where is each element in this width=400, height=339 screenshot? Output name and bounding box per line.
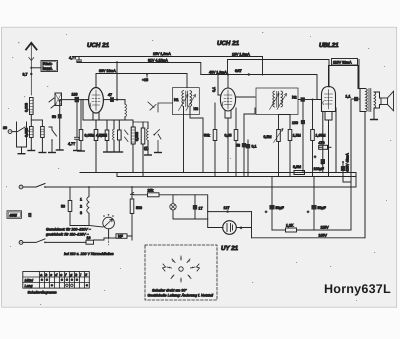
transformer T3 secondary (374, 92, 376, 108)
cathode resistor 470 (319, 112, 323, 148)
fuse box on lower mains (86, 240, 94, 244)
node dots on 40V line (248, 73, 250, 75)
svg-text:470: 470 (319, 141, 325, 145)
resistor 20k (148, 193, 160, 197)
svg-text:50: 50 (52, 115, 56, 119)
table column lines (39, 272, 84, 289)
transformer T3 core (369, 89, 371, 112)
Rueckkopplung box (41, 61, 58, 72)
IF transformer T2 shield box (256, 88, 298, 115)
svg-text:165V: 165V (319, 234, 328, 238)
osc tuning coil (tall) (132, 120, 134, 127)
svg-text:koppl.: koppl. (43, 67, 53, 71)
svg-text:+: + (307, 210, 309, 214)
IFT1 primary winding (182, 91, 184, 107)
junction to Rueckkopplung box (30, 67, 32, 69)
screen lead (335, 108, 337, 173)
ground under padder (56, 149, 63, 151)
svg-text:Gezeichnet: für 200–220V ~: Gezeichnet: für 200–220V ~ (46, 228, 91, 232)
IFT1 secondary winding (190, 91, 192, 107)
socket side zigzags (163, 264, 200, 271)
filter cap 50uF first (271, 177, 273, 206)
tube U1 anode lead to bus B3 (95, 74, 97, 88)
dashed box around rectifier socket (145, 245, 217, 300)
speaker LS (381, 98, 388, 105)
svg-text:12: 12 (28, 213, 32, 217)
svg-text:0,008: 0,008 (135, 132, 139, 141)
svg-text:bei 110 u. 220 V Kurzschließen: bei 110 u. 220 V Kurzschließen (64, 252, 114, 256)
ground under L3 (39, 152, 46, 154)
tube U2 plate lead to IFT2 (236, 96, 255, 98)
svg-text:Schalter dreht um 90°: Schalter dreht um 90° (152, 289, 187, 293)
detector line down (298, 100, 303, 121)
trimmer box (118, 120, 120, 130)
osc coupling coil (117, 100, 125, 104)
feedback coil (147, 122, 149, 129)
coupling cap 1,1 to output transformer (351, 98, 360, 100)
ground bus A (80, 172, 356, 174)
IFT1 riser to bus B3 (186, 74, 188, 88)
tube U3 internal electrodes (325, 90, 333, 110)
tube U3 UBL21 envelope (322, 87, 336, 112)
svg-text:81V 4,15mA: 81V 4,15mA (148, 59, 168, 63)
cathode resistor 0,5M under tube U1 (94, 130, 98, 141)
osc section link wire (83, 119, 133, 121)
bus 40V 1,9mA segment (201, 75, 317, 100)
tap 3,7 (30, 73, 32, 75)
table row lines (23, 277, 90, 283)
svg-text:UCH 21: UCH 21 (217, 40, 240, 47)
osc wave switch (153, 134, 155, 136)
svg-text:g: g (70, 273, 72, 277)
ground bus B (117, 173, 356, 177)
variometer chevron on antenna lead (29, 58, 34, 61)
socket diagram center (179, 267, 183, 271)
antenna coil L1 0,008 (30, 98, 34, 115)
wave-trap switch box (12, 122, 27, 147)
svg-text:500: 500 (136, 206, 142, 210)
ground under S1 (49, 152, 56, 154)
ground under osc switch (155, 152, 162, 154)
svg-text:1,5M: 1,5M (293, 134, 301, 138)
volume pot 0,5M (278, 115, 280, 130)
svg-text:Mittel: Mittel (25, 278, 34, 282)
coupling cap 0,05 (235, 108, 237, 130)
second osc coil (142, 122, 144, 128)
osc switch contacts (125, 130, 129, 142)
grid coupling cap 180 (60, 99, 88, 101)
bus B3 80V 18mA (96, 73, 187, 75)
earth terminal 30 (8, 130, 12, 134)
svg-text:6AT: 6AT (235, 69, 242, 73)
svg-text:100: 100 (292, 121, 298, 125)
IFT2 core (277, 92, 279, 108)
svg-text:58: 58 (236, 144, 240, 148)
svg-text:40V 1,9mA: 40V 1,9mA (209, 71, 227, 75)
svg-text:80V 18mA: 80V 18mA (99, 69, 116, 73)
cathode bypass 100uF (322, 147, 324, 158)
voltage selector rotary switch (103, 217, 115, 229)
IFT1 returns (183, 107, 185, 173)
cap 0,1 (246, 144, 250, 148)
svg-text:UCH 21: UCH 21 (87, 42, 110, 49)
node +18 tick (146, 74, 148, 78)
svg-text:Schalterdiagramm: Schalterdiagramm (28, 291, 57, 295)
svg-text:47: 47 (108, 93, 112, 97)
AVC line (202, 118, 204, 173)
mains terminal upper (19, 185, 23, 189)
svg-text:e: e (60, 273, 62, 277)
rectifier loop top wire (208, 211, 252, 213)
cap 1T (194, 195, 196, 205)
decoupling cap 4,7T at bus left end (77, 57, 82, 63)
resistor 1,5M (279, 115, 291, 130)
svg-text:2: 2 (80, 205, 82, 209)
ground under wave trap (18, 153, 25, 155)
tube U3 grid lead (317, 99, 322, 101)
tube U1 internal electrodes (92, 90, 100, 111)
svg-text:4,7T: 4,7T (69, 56, 77, 60)
svg-text:4,7T: 4,7T (68, 142, 76, 146)
primary return down (364, 112, 366, 238)
svg-text:N3: N3 (194, 107, 199, 111)
tube U2 top lead to 40V bus (227, 75, 229, 89)
svg-text:Lang: Lang (25, 284, 33, 288)
grid wire from detector node (305, 99, 317, 101)
IFT1 trimmer arrows (179, 95, 189, 111)
dashed link selector (108, 230, 110, 245)
bus B2 81V 4,15mA (77, 63, 201, 75)
svg-text:3,7: 3,7 (23, 73, 28, 77)
resistor 1,65M (312, 100, 314, 130)
band switch S2 upper (49, 98, 56, 108)
IFT2 trimmer arrows (270, 94, 280, 110)
plate wire with cap 47 (103, 99, 117, 101)
svg-text:50: 50 (61, 205, 65, 209)
svg-text:20k: 20k (148, 189, 154, 193)
socket pins radial (167, 256, 195, 282)
tube U1 heater pins (93, 112, 99, 129)
band switch S1 (49, 127, 57, 153)
antenna symbol (30, 44, 32, 95)
svg-text:50k: 50k (204, 134, 210, 138)
svg-text:Horny637L: Horny637L (324, 282, 391, 296)
svg-text:50μF: 50μF (318, 206, 327, 210)
heater line to lamp (132, 194, 176, 196)
band switch contacts near IFT1 (148, 102, 173, 112)
svg-text:(1): (1) (144, 147, 148, 151)
mains terminal lower (19, 241, 23, 245)
svg-text:10V 1,9mA: 10V 1,9mA (153, 52, 171, 56)
tube U3 pins down (325, 112, 332, 177)
scan speckles (18, 42, 19, 43)
svg-text:gestrichelt: für 110–125V ~: gestrichelt: für 110–125V ~ (46, 232, 89, 236)
svg-text:UBL21: UBL21 (319, 42, 339, 49)
switch table frame (23, 272, 90, 289)
output transformer T3 primary (366, 89, 368, 112)
svg-text:0,05: 0,05 (225, 134, 232, 138)
grid resistor 6,8M on ground bus (294, 171, 305, 175)
padder 4,7T (osc) (106, 120, 108, 130)
heater line continues to rectifier loop (176, 195, 208, 212)
bus B1 10V 1,9mA (77, 57, 263, 76)
padder cap 50 (59, 101, 61, 114)
smoothing resistor 1,2K on 115V line (272, 229, 286, 231)
node dot, riser to bus B2 (116, 99, 118, 101)
svg-text:115V: 115V (321, 226, 330, 230)
svg-text:h: h (75, 273, 77, 277)
IF transformer T1 shield box (173, 88, 200, 115)
svg-text:+: + (265, 210, 267, 214)
tube U2 internal electrodes (224, 90, 232, 109)
tube U2 grid return 50k (214, 103, 216, 130)
ground under trimmer (111, 151, 123, 153)
svg-text:10V 1,9mA: 10V 1,9mA (232, 53, 250, 57)
ground under 0,05M (78, 150, 85, 152)
svg-text:c: c (50, 273, 52, 277)
ground under 4,7T (74, 150, 81, 152)
link to antenna coil (27, 130, 30, 132)
B+ riser 435V 48mA (343, 99, 351, 182)
svg-text:4,7T: 4,7T (96, 134, 104, 138)
svg-text:3: 3 (80, 211, 82, 215)
IFT2 primary winding (273, 91, 275, 107)
tube U1 grid lead (88, 99, 89, 101)
svg-text:k: k (85, 273, 87, 277)
tube U2 heater pins (225, 111, 231, 173)
grid cap 4,7T (75, 100, 80, 151)
svg-text:Gestrichelte Leitung: Änderung: Gestrichelte Leitung: Änderung f. Netzte… (148, 294, 214, 298)
screen feed wire with rotated 0,1 label (218, 75, 221, 96)
svg-text:UY 21: UY 21 (221, 245, 239, 252)
coil L2 (30, 127, 34, 138)
mains switch upper (23, 177, 356, 188)
filter cap 50uF second (313, 177, 315, 206)
speaker ground (373, 108, 375, 120)
svg-text:40W: 40W (10, 213, 18, 217)
grid resistor 0,05M (80, 100, 82, 130)
svg-text:+: + (240, 226, 242, 230)
svg-text:6,8M: 6,8M (293, 165, 301, 169)
svg-text:+: + (321, 162, 323, 166)
Mittel row dots (41, 278, 44, 281)
output stage box 110V 32mA (329, 60, 359, 89)
svg-text:NF: NF (118, 235, 124, 239)
mains switch lower (23, 239, 86, 243)
tube U1 UCH21 envelope (89, 88, 104, 114)
svg-text:+: + (314, 155, 316, 159)
node A (59, 100, 61, 102)
IFT1 core (186, 91, 188, 107)
frame aerial symbol (55, 93, 62, 106)
svg-text:50μF: 50μF (276, 206, 285, 210)
ground under osc padder (104, 151, 111, 153)
svg-text:N2: N2 (292, 96, 297, 100)
ground under L2 (28, 150, 35, 152)
wire antenna lead lower (30, 115, 32, 127)
svg-text:19: 19 (87, 236, 91, 240)
heater chain primary coil (88, 187, 90, 197)
output transformer feed (329, 66, 366, 89)
svg-text:0,05M: 0,05M (85, 134, 95, 138)
svg-text:Rück-: Rück- (43, 62, 53, 66)
165V line (252, 237, 365, 239)
tube U3 top lead (328, 66, 330, 87)
svg-text:0,5M: 0,5M (264, 135, 272, 139)
coil L3 (41, 120, 43, 153)
Lang row dots (51, 284, 54, 287)
svg-text:1,1: 1,1 (346, 95, 351, 99)
heater dropper 500 (131, 187, 134, 199)
svg-text:b: b (45, 273, 47, 277)
AVC blob 58 (244, 108, 255, 143)
svg-text:180: 180 (72, 93, 78, 97)
svg-text:1,2K: 1,2K (286, 224, 294, 228)
tube U2 UCH21 envelope (220, 88, 235, 111)
svg-text:0,008: 0,008 (25, 103, 29, 112)
selector to lower mains (94, 229, 109, 240)
svg-text:435V 48mA: 435V 48mA (346, 153, 350, 172)
svg-text:30: 30 (3, 126, 7, 130)
svg-text:N1: N1 (174, 98, 179, 102)
rating box 40W (7, 211, 22, 219)
svg-text:127: 127 (224, 206, 230, 210)
svg-text:0,1: 0,1 (252, 145, 257, 149)
svg-text:a: a (40, 273, 42, 277)
NTC box under selector (109, 237, 116, 239)
osc choke (113, 120, 115, 129)
svg-text:1,65M: 1,65M (316, 134, 326, 138)
svg-text:110V 32mA: 110V 32mA (333, 61, 352, 65)
tube U4 UY21 rectifier (208, 212, 223, 228)
wire y59.5 to output box (228, 60, 330, 75)
ground under feedback coil (145, 154, 152, 156)
svg-text:1: 1 (80, 198, 82, 202)
IFT2 secondary winding (281, 91, 283, 107)
svg-text:+18: +18 (142, 78, 148, 82)
cap 100 (301, 120, 305, 124)
IFT2 detector cap (301, 97, 305, 101)
svg-text:0,1: 0,1 (212, 87, 216, 92)
dropper resistor 50 (69, 187, 71, 201)
dial lamp (172, 195, 174, 204)
